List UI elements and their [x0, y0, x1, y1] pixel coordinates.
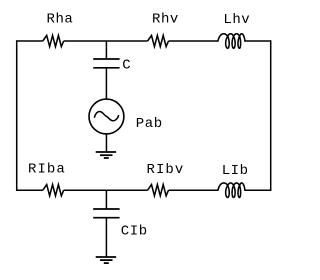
svg-text:LIb: LIb — [222, 163, 249, 179]
wire top rail left segment — [17, 40, 43, 42]
wire stub from middle node to capacitor CIb — [105, 190, 107, 209]
wire capacitor C to source Pab — [105, 68, 107, 99]
wire source Pab to ground — [105, 134, 107, 152]
svg-text:RIbv: RIbv — [147, 162, 185, 178]
svg-text:Rha: Rha — [47, 12, 74, 28]
svg-text:CIb: CIb — [121, 224, 148, 240]
resistor Rha — [43, 35, 64, 46]
capacitor C — [93, 59, 119, 68]
svg-text:Lhv: Lhv — [223, 12, 250, 28]
wire top rail between Rha and Rhv — [64, 40, 148, 42]
wire middle rail between RIbv and LIb — [169, 189, 219, 191]
svg-text:RIba: RIba — [28, 162, 66, 178]
wire left vertical rail — [16, 40, 18, 191]
svg-text:Pab: Pab — [136, 116, 163, 132]
inductor LIb — [218, 183, 245, 198]
svg-text:Rhv: Rhv — [152, 12, 179, 28]
source Pab — [89, 99, 124, 134]
resistor RIbv — [148, 185, 169, 196]
ground at bottom — [96, 257, 116, 263]
wire capacitor CIb to ground — [105, 218, 107, 257]
wire middle rail right segment — [245, 189, 271, 191]
wire top rail between Rhv and Lhv — [169, 40, 219, 42]
sine wave of source Pab — [95, 112, 119, 121]
capacitor CIb — [93, 209, 119, 218]
wire top rail right segment — [245, 40, 271, 42]
wire stub from top node to capacitor C — [105, 41, 107, 59]
ground below Pab — [96, 152, 116, 158]
wire middle rail between RIba and RIbv — [64, 189, 148, 191]
wire right vertical rail — [270, 40, 272, 191]
resistor Rhv — [148, 35, 169, 46]
resistor RIba — [43, 185, 64, 196]
wire middle rail left segment — [17, 189, 43, 191]
svg-text:C: C — [122, 58, 131, 74]
inductor Lhv — [218, 34, 245, 49]
